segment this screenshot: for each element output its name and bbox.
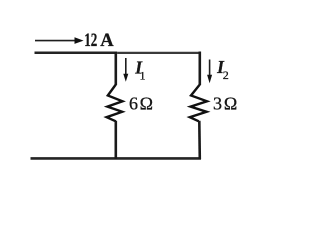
svg-text:6: 6 bbox=[129, 93, 138, 113]
svg-text:Ω: Ω bbox=[224, 94, 237, 114]
svg-text:A: A bbox=[100, 31, 114, 51]
svg-text:2: 2 bbox=[223, 68, 229, 82]
svg-text:12: 12 bbox=[84, 31, 97, 51]
svg-text:Ω: Ω bbox=[140, 93, 153, 113]
svg-text:1: 1 bbox=[140, 68, 146, 82]
svg-text:3: 3 bbox=[213, 94, 222, 114]
